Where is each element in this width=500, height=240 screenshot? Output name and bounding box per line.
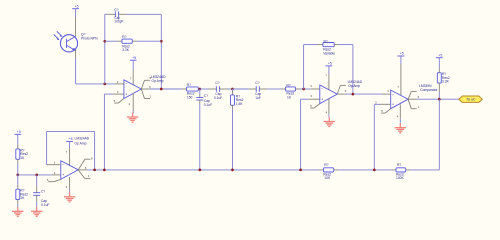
power +5 (Q1 collector) — [72, 8, 79, 10]
svg-text:4: 4 — [326, 111, 328, 115]
node output/pull-up/feedback junction — [438, 98, 441, 101]
svg-text:+5: +5 — [438, 53, 442, 57]
pin U4 V- pin4 — [399, 104, 401, 119]
svg-text:+5: +5 — [400, 52, 404, 56]
svg-text:C?: C? — [41, 190, 45, 194]
pin Q1 collector — [75, 17, 77, 37]
pin stub U1 pin8 (bottom left) — [118, 99, 124, 104]
node C5 junction — [35, 174, 38, 177]
svg-text:3: 3 — [54, 171, 56, 175]
resistor R8 — [437, 73, 441, 83]
wire divider node to buffer U2 pin3 — [18, 174, 52, 176]
node C3/R3/C4 junction — [231, 88, 234, 91]
resistor R5 (10K in rail) — [323, 168, 333, 172]
power +5 (divider) — [14, 133, 21, 135]
svg-text:3: 3 — [310, 94, 312, 98]
wire U3 feedback left vertical — [303, 45, 305, 89]
wire R10 to ground — [17, 204, 19, 207]
svg-text:R?: R? — [324, 39, 328, 43]
capacitor C1 — [114, 12, 116, 18]
pin U2 output — [78, 169, 87, 171]
wire rail between R5 and R6 — [338, 169, 391, 171]
resistor R9 — [16, 149, 20, 159]
pin stub U3 pin5 (bottom left) — [314, 104, 320, 108]
svg-text:2: 2 — [54, 161, 56, 165]
pin R4 right — [296, 88, 301, 90]
svg-text:−: − — [62, 163, 64, 167]
pin U2 non-inverting pin3 — [52, 174, 61, 176]
pin stub U2 pin8 (top right) — [78, 159, 85, 170]
pin stub U3 (top right) — [337, 85, 340, 94]
wire +5 to R9 — [17, 134, 19, 144]
wire U4 output to port — [417, 98, 459, 100]
transistor Q1 (Photo NPN) — [60, 35, 77, 52]
svg-text:7: 7 — [397, 85, 399, 89]
pin U4 inverting pin2 — [382, 93, 391, 95]
svg-text:2: 2 — [311, 84, 313, 88]
port To uC — [459, 96, 483, 102]
capacitor C3 — [215, 86, 217, 92]
wire U2 feedback left vertical — [46, 131, 48, 164]
svg-text:5: 5 — [310, 104, 312, 108]
power +5 (pull-up R8) — [436, 57, 443, 59]
wire R1 to right vertical — [137, 40, 162, 42]
wire Q1 collector to +5 — [75, 9, 77, 17]
wire reference rail — [87, 169, 319, 171]
op-amp U2 LM324AD buffer — [61, 161, 78, 180]
resistor R3 to rail — [232, 89, 234, 91]
svg-text:150: 150 — [187, 95, 193, 99]
svg-text:+5: +5 — [328, 62, 332, 66]
pin R6 right — [406, 169, 411, 171]
variable resistor R7 — [323, 43, 334, 47]
wire +5 to R8 — [438, 58, 440, 68]
wire feedback right vertical — [160, 14, 162, 89]
svg-text:R?: R? — [324, 163, 328, 167]
node U3 output / feedback junction — [352, 93, 355, 96]
svg-text:4: 4 — [66, 185, 68, 189]
wire R4 to U3 pin2 — [300, 88, 311, 90]
pin C1 right — [118, 13, 126, 15]
resistor R10 — [16, 189, 20, 199]
node R4/U3 feedback junction — [302, 88, 305, 91]
svg-text:Comparator: Comparator — [420, 88, 438, 92]
pin U4 non-inverting pin3 — [380, 103, 391, 105]
resistor R6 (100K in rail) — [396, 168, 406, 172]
svg-text:1.5K: 1.5K — [236, 102, 244, 106]
op-amp U4 LM339N comparator — [391, 90, 408, 109]
node C1/R1 left junction — [103, 40, 106, 43]
wire R3 node to C4 — [233, 88, 249, 90]
svg-text:+: + — [62, 173, 64, 177]
node divider — [16, 174, 19, 177]
svg-text:C?: C? — [204, 94, 208, 98]
svg-text:3: 3 — [117, 90, 119, 94]
pin R2 right — [198, 88, 200, 90]
power +5 (U3 pin 7) — [326, 65, 333, 67]
node C1/R1 right junction — [160, 40, 163, 43]
node rail/U4 pin3 — [373, 169, 376, 172]
pin R10 top — [17, 185, 19, 189]
wire R8 to output node — [438, 92, 440, 99]
pin C3 left — [209, 88, 217, 90]
svg-text:1K: 1K — [20, 196, 25, 200]
pin stub U4 (top right) — [408, 91, 411, 99]
pin R8 bottom — [438, 83, 440, 92]
svg-text:R?: R? — [287, 83, 291, 87]
capacitor C5 to ground — [36, 175, 38, 186]
svg-text:1K: 1K — [20, 156, 25, 160]
svg-text:C?: C? — [255, 81, 259, 85]
svg-text:R?: R? — [397, 163, 401, 167]
svg-text:To uC: To uC — [466, 98, 476, 102]
pin C4 left — [249, 88, 257, 90]
wire U2 feedback top — [47, 130, 95, 132]
svg-text:10K: 10K — [324, 176, 331, 180]
node rail/U2 feedback — [93, 169, 96, 172]
pin U4 V+ pin7 — [400, 56, 402, 64]
pin U3 non-inverting pin3 — [309, 98, 320, 100]
node rail/U3 pin3 — [299, 169, 302, 172]
pin C3 right — [220, 88, 228, 90]
resistor R4 — [286, 87, 296, 91]
svg-text:+5: +5 — [75, 4, 79, 8]
wire C4 to R4 — [267, 88, 281, 90]
wire U3 output to comparator U4 — [346, 93, 382, 95]
photo arrows into Q1 — [57, 31, 62, 36]
svg-text:100K: 100K — [396, 176, 405, 180]
pin U1 V+ pin7 — [132, 60, 134, 70]
pin U3 V- pin4 — [328, 98, 330, 114]
pin U1 inverting pin2 — [115, 83, 124, 85]
svg-text:C?: C? — [114, 8, 118, 12]
wire U3 feedback top — [304, 44, 318, 46]
pin U2 V+ pin7 — [69, 141, 71, 148]
svg-text:+: + — [321, 98, 323, 102]
pin stub U1 pin1 (bottom right) — [141, 89, 144, 99]
capacitor C4 — [255, 86, 257, 92]
svg-text:4: 4 — [128, 102, 130, 106]
ground below R10 — [17, 207, 19, 211]
pin stub U1 pin5 (top right) — [141, 80, 144, 89]
pin U2 inverting pin2 — [47, 164, 61, 166]
svg-text:LM324AD: LM324AD — [75, 136, 90, 140]
pin U3 V+ pin7 — [328, 66, 330, 74]
svg-text:2: 2 — [387, 89, 389, 93]
power +5 (U2 pin 7) — [66, 140, 73, 142]
svg-text:3.3K: 3.3K — [122, 48, 130, 52]
svg-text:+5: +5 — [132, 56, 136, 60]
svg-text:+: + — [392, 103, 394, 107]
svg-text:2: 2 — [117, 80, 119, 84]
svg-text:1: 1 — [150, 95, 152, 99]
svg-text:1uF: 1uF — [255, 96, 261, 100]
wire to C1 — [105, 13, 108, 15]
pin R7 right — [334, 44, 339, 46]
resistor R1 — [122, 39, 132, 43]
pin U1 non-inverting pin3 — [113, 93, 124, 95]
power +5 (U1 pin 7) — [130, 59, 137, 61]
ground below C5 — [36, 207, 38, 211]
pin U2 V- pin4 — [69, 177, 71, 190]
pin R5 left — [319, 169, 324, 171]
node rail/R3 — [231, 169, 234, 172]
wire C1 to right vertical — [126, 13, 161, 15]
svg-text:−: − — [392, 92, 394, 96]
op-amp U3 LM324AD — [320, 85, 337, 104]
wire to R1 — [105, 40, 118, 42]
svg-text:3.3K: 3.3K — [442, 80, 450, 84]
svg-text:0.1uF: 0.1uF — [214, 96, 222, 100]
pin U3 inverting pin2 — [311, 88, 320, 90]
pin U1 V- pin4 — [132, 93, 134, 111]
svg-text:0.1uF: 0.1uF — [41, 203, 49, 207]
node U1 output / feedback junction — [160, 88, 163, 91]
wire feedback left vertical — [104, 14, 106, 84]
svg-text:5: 5 — [381, 109, 383, 113]
pin C4 right — [259, 88, 267, 90]
ground below U3 — [328, 117, 330, 121]
svg-text:7: 7 — [66, 150, 68, 154]
wire R9 to divider node — [17, 164, 19, 175]
pin R9 top — [17, 144, 19, 149]
pin R6 left — [392, 169, 397, 171]
pin stub U4 pin5 (bottom left) — [385, 109, 391, 113]
wire output node down to rail — [438, 99, 440, 170]
svg-text:1: 1 — [418, 105, 420, 109]
svg-text:Photo NPN: Photo NPN — [81, 36, 98, 40]
wire rail to comparator output leg — [410, 169, 439, 171]
svg-text:1K: 1K — [287, 95, 292, 99]
svg-text:8: 8 — [91, 156, 93, 160]
capacitor C2 to rail — [199, 89, 201, 94]
svg-text:5: 5 — [114, 99, 116, 103]
pin R7 left — [318, 44, 323, 46]
pin R4 left — [281, 88, 286, 90]
ground below U2 — [69, 192, 71, 196]
power +5 (U4 pin 7) — [398, 55, 405, 57]
pin U1 output pin6 — [141, 88, 150, 90]
wire U3 pin3 to reference rail — [301, 98, 309, 100]
wire U4 pin3 to reference rail — [374, 103, 380, 105]
pin U4 output — [408, 98, 417, 100]
op-amp U1 LM324AD — [124, 80, 141, 99]
svg-text:Op Amp: Op Amp — [348, 84, 360, 88]
svg-text:100pF: 100pF — [114, 19, 123, 23]
svg-text:6: 6 — [345, 89, 347, 93]
pin stub U2 pin1 (bottom right) — [78, 170, 85, 179]
svg-text:+: + — [125, 92, 127, 96]
wire divider node down to R10 — [17, 175, 19, 185]
ground below U4 — [399, 123, 401, 127]
pin C1 left — [108, 13, 116, 15]
pin R5 right — [334, 169, 339, 171]
node rail/C2 — [198, 169, 201, 172]
wire C3 to R3 node — [228, 88, 233, 90]
svg-text:7: 7 — [325, 74, 327, 78]
resistor R2 — [187, 87, 199, 91]
svg-text:−: − — [321, 87, 323, 91]
node feedback / U1 pin2 junction — [103, 83, 106, 86]
svg-text:C?: C? — [215, 81, 219, 85]
pin R10 bottom — [17, 200, 19, 204]
svg-text:6: 6 — [418, 95, 420, 99]
svg-text:1: 1 — [88, 174, 90, 178]
wire U1 pin3 to reference rail — [104, 93, 113, 95]
node rail/U1 pin3 — [103, 169, 106, 172]
svg-text:4: 4 — [397, 114, 399, 118]
svg-text:+5: +5 — [17, 130, 21, 134]
pin R9 bottom — [17, 159, 19, 163]
svg-text:R?: R? — [187, 83, 191, 87]
pin R8 top — [438, 68, 440, 73]
svg-text:−: − — [125, 82, 127, 86]
wire U2 feedback right vertical — [94, 131, 96, 170]
pin stub U2 pin5 (bottom left) — [54, 179, 61, 181]
pin R1 left — [117, 40, 122, 42]
node R2/C2/C3 junction — [198, 88, 201, 91]
svg-text:Op Amp: Op Amp — [152, 79, 164, 83]
svg-text:Variable: Variable — [323, 51, 335, 55]
pin R2 left — [182, 88, 187, 90]
wire R7 to right vertical — [339, 44, 353, 46]
pin stub U4 pin1 (bottom right) — [408, 99, 411, 109]
pin U3 output pin6 — [337, 93, 346, 95]
wire Q1 emitter to U1 inverting input — [75, 59, 77, 84]
svg-text:+5: +5 — [69, 137, 73, 141]
wire U1 output to R2 — [150, 88, 182, 90]
pin Q1 emitter — [75, 50, 77, 59]
wire U3 feedback right vertical — [352, 45, 354, 95]
ground below U1 — [132, 113, 134, 117]
svg-text:R?: R? — [122, 35, 126, 39]
svg-text:Op Amp: Op Amp — [75, 141, 87, 145]
svg-text:0.1uF: 0.1uF — [204, 103, 212, 107]
svg-text:7: 7 — [130, 76, 132, 80]
pin R1 right — [132, 40, 137, 42]
wire C2 node to C3 — [200, 88, 209, 90]
